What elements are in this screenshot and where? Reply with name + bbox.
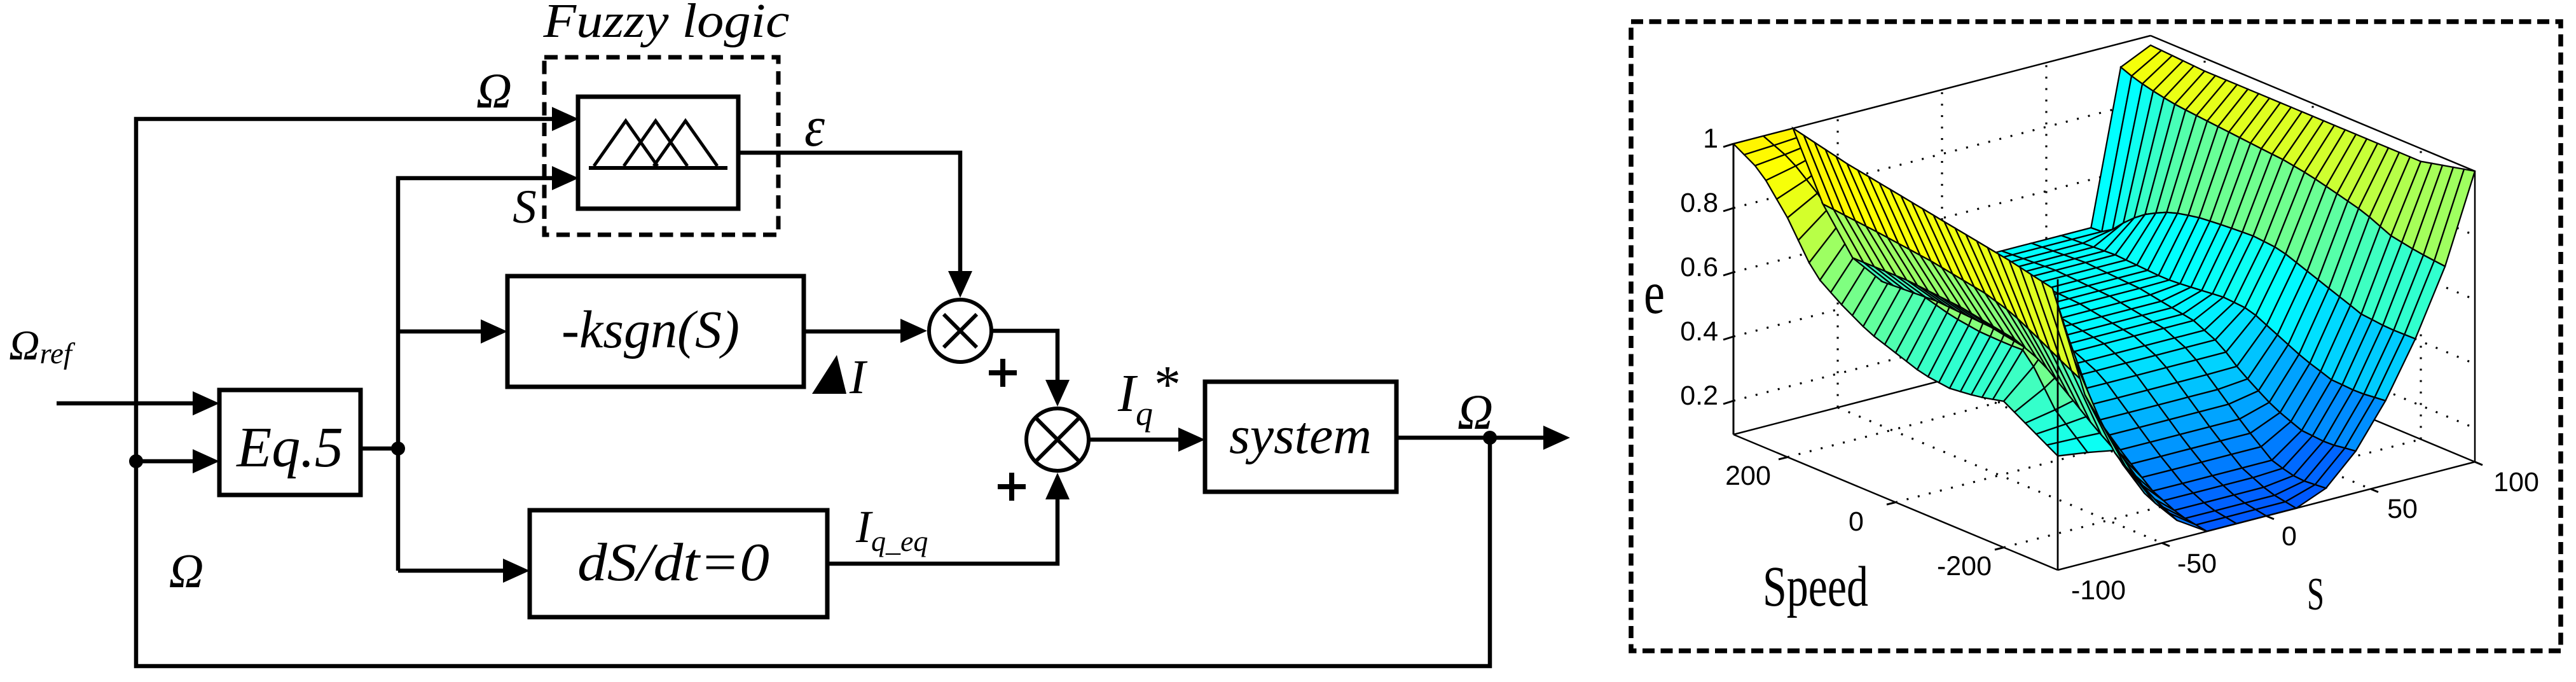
node junction on output: [1483, 431, 1497, 445]
svg-text:Speed: Speed: [1763, 555, 1868, 618]
plus sign near multiplier2: [998, 473, 1026, 501]
wire feedback loop (system output, down, bottom, left rail, top Omega wire): [136, 119, 1490, 666]
svg-text:-200: -200: [1937, 551, 1992, 581]
svg-text:S: S: [513, 181, 537, 233]
arrowhead into -ksgn(S): [481, 319, 507, 344]
axes box back edges: [1733, 36, 2475, 462]
arrowhead rail into Eq.5: [193, 449, 219, 473]
arrowhead S into fuzzy: [552, 166, 579, 190]
grid dotted vertical S lines on back wall: [1838, 63, 2046, 408]
wire epsilon from fuzzy box to multiplier: [738, 153, 960, 274]
svg-text:e: e: [1644, 259, 1665, 326]
box -ksgn(S): [507, 276, 804, 387]
arrowhead ksgn into multiplier1: [900, 319, 927, 343]
multiplier1 circle with X: [929, 300, 991, 362]
svg-text:50: 50: [2387, 494, 2418, 524]
svg-text:0.6: 0.6: [1680, 252, 1718, 282]
arrowhead system output: [1543, 426, 1570, 450]
svg-text:0.2: 0.2: [1680, 380, 1718, 411]
box Eq.5: [219, 390, 361, 495]
box system: [1205, 382, 1396, 492]
arrowhead Omega top into fuzzy: [552, 107, 579, 131]
arrowhead Omega_ref into Eq.5: [193, 391, 219, 415]
grid dotted lines on back wall v=300 (z levels): [1733, 100, 2151, 401]
node junction on left rail: [129, 454, 143, 468]
wire dS/dt output to multiplier2: [827, 497, 1057, 564]
speed axis ticks: [1779, 457, 2004, 550]
svg-text:0: 0: [2282, 521, 2297, 552]
svg-text:1: 1: [1703, 123, 1718, 154]
svg-text:-100: -100: [2071, 575, 2126, 606]
front axes edges: [1733, 279, 2475, 570]
box fuzzy membership: [578, 97, 738, 209]
svg-text:-ksgn(S): -ksgn(S): [561, 300, 740, 359]
membership triangle 1: [594, 121, 658, 166]
grid dotted vertical v lines on right wall: [2205, 59, 2421, 440]
3D fuzzy surface mesh: [1733, 45, 2475, 531]
wire branch to -ksgn(S): [398, 330, 483, 334]
svg-text:200: 200: [1725, 461, 1771, 491]
node junction on rail2: [391, 442, 405, 456]
svg-text:Ω: Ω: [169, 545, 204, 598]
arrowhead into dS/dt: [503, 559, 530, 583]
svg-text:Ωref: Ωref: [9, 322, 76, 370]
label Delta I: [812, 355, 846, 394]
svg-text:dS/dt=0: dS/dt=0: [577, 532, 769, 592]
svg-text:Ω: Ω: [476, 63, 512, 118]
membership baseline: [589, 166, 727, 170]
wire -ksgn(S) output: [804, 330, 903, 334]
arrowhead into system: [1178, 428, 1205, 452]
svg-text:100: 100: [2493, 467, 2539, 498]
grid dotted floor lines v ticks: [1787, 349, 2421, 548]
svg-text:ε: ε: [804, 95, 825, 158]
wire system output: [1396, 436, 1545, 440]
svg-text:0.4: 0.4: [1680, 316, 1718, 347]
wire multiplier2 to system: [1089, 438, 1181, 442]
svg-text:Fuzzy logic: Fuzzy logic: [542, 0, 789, 48]
wire multiplier1 to multiplier2: [991, 331, 1057, 382]
arrowhead epsilon into multiplier1: [948, 271, 972, 298]
svg-text:I: I: [849, 351, 868, 404]
dashed border of plot: [1631, 22, 2561, 651]
grid dotted floor lines S ticks: [1838, 354, 2371, 543]
plus sign near multiplier1: [989, 359, 1017, 387]
multiplier2 circle with inscribed X: [1026, 408, 1089, 471]
svg-text:-50: -50: [2177, 548, 2217, 579]
svg-text:Ω: Ω: [1457, 384, 1493, 440]
wire branch to dS/dt: [398, 569, 506, 573]
svg-text:Eq.5: Eq.5: [235, 416, 343, 479]
membership triangle 2: [624, 121, 687, 166]
svg-text:S: S: [2307, 568, 2324, 620]
membership triangle 3: [654, 121, 717, 166]
S axis ticks: [2162, 462, 2483, 546]
wire rail to Eq.5 lower input: [136, 459, 195, 464]
arrowhead into multiplier2 bottom: [1045, 473, 1070, 499]
svg-text:0.8: 0.8: [1680, 188, 1718, 218]
box dS/dt=0: [530, 510, 827, 617]
svg-text:system: system: [1229, 406, 1372, 465]
arrowhead into multiplier2 top: [1045, 380, 1070, 407]
wire Omega_ref input: [57, 401, 195, 406]
grid dotted lines on right wall S=100 (z levels): [2151, 100, 2475, 428]
svg-text:Iq_eq: Iq_eq: [855, 501, 928, 557]
box fuzzy dashed: [544, 57, 778, 235]
wire rail2 vertical: [398, 178, 554, 571]
svg-text:Iq*: Iq*: [1117, 355, 1178, 433]
z axis ticks: [1723, 144, 1733, 404]
wire Eq.5 output to rail2: [361, 447, 398, 451]
svg-text:0: 0: [1849, 506, 1864, 537]
